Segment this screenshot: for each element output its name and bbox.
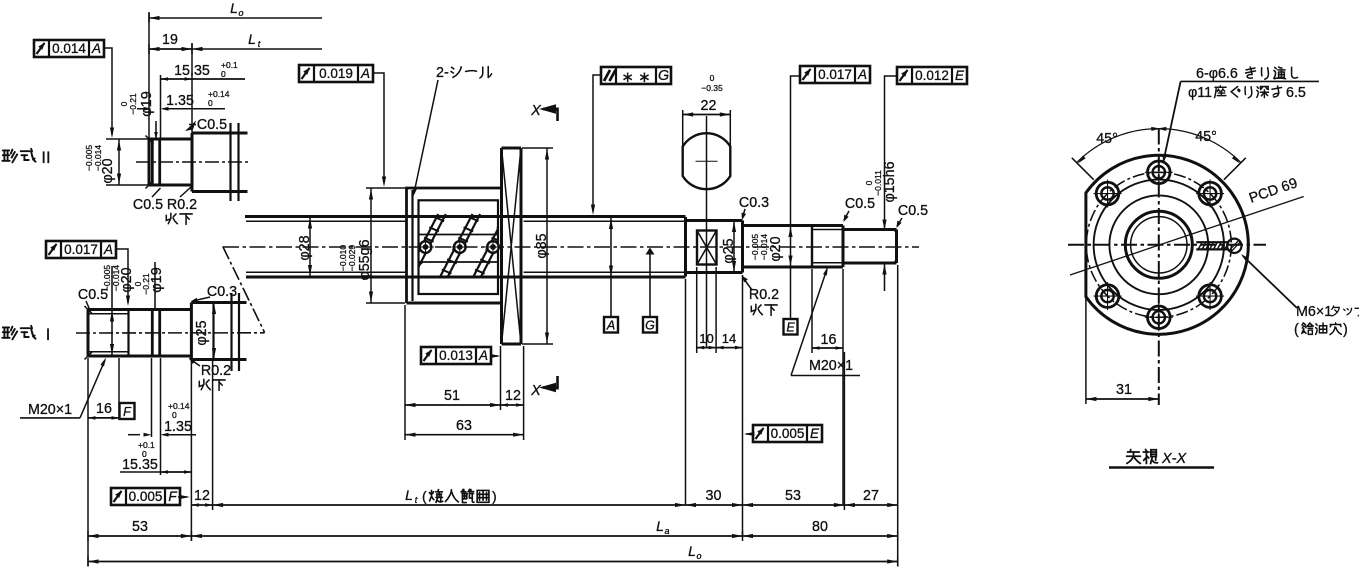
svg-text:φ19: φ19 (149, 267, 165, 293)
dimension Lt top (192, 48, 322, 50)
form II break double bars (229, 123, 231, 201)
end view horizontal centerline (1068, 244, 1266, 246)
svg-text:φ55g6: φ55g6 (357, 239, 373, 280)
svg-text:φ28: φ28 (297, 235, 313, 260)
thread M20 root lines (812, 229, 843, 231)
dimension 12 chain row1 (191, 504, 212, 506)
svg-text:53: 53 (132, 519, 148, 535)
form I relief groove lines (151, 310, 154, 357)
form II dimension 19 (148, 12, 150, 139)
projection line from flats section (706, 116, 708, 347)
svg-text:A: A (360, 66, 370, 81)
svg-text:φ25: φ25 (721, 238, 737, 263)
svg-text:0: 0 (172, 410, 177, 420)
flange cross diagonals (502, 148, 522, 344)
step face phi25 to phi20 (741, 221, 744, 273)
svg-text:0: 0 (142, 449, 147, 459)
svg-text:0.013: 0.013 (439, 348, 473, 363)
svg-text:A: A (857, 67, 867, 82)
dimension Lo top (149, 17, 322, 19)
svg-text:C0.5: C0.5 (845, 196, 875, 212)
form I centerline (76, 332, 265, 334)
svg-text:F: F (168, 489, 177, 504)
end chamfer slashes (894, 230, 897, 233)
six bolt holes with counterbore (1148, 161, 1171, 184)
form I phi20 dimension (111, 266, 113, 356)
leader 0.005F arrow to ext line (178, 496, 187, 498)
leader 0.012E to phi15 dimension line (885, 76, 898, 229)
dimension phi55g6 nut body (366, 187, 405, 189)
svg-text:o: o (238, 8, 243, 18)
svg-text:12: 12 (194, 488, 210, 504)
bore circle phi28 (1125, 211, 1192, 278)
dimension phi85 flange OD (522, 147, 553, 149)
svg-text:A: A (103, 242, 113, 257)
svg-text:): ) (492, 488, 497, 504)
flats section center ticks (696, 160, 718, 162)
svg-text:14: 14 (722, 331, 736, 346)
svg-text:−0.35: −0.35 (701, 83, 723, 93)
GD&T frame star star G (601, 67, 671, 84)
svg-text:L: L (688, 543, 696, 559)
datum G frame stem and triangle (649, 250, 651, 317)
svg-text:φ25: φ25 (194, 320, 210, 345)
end view flange outer circle with left flat (1086, 155, 1248, 334)
svg-text:φ20: φ20 (119, 267, 135, 292)
svg-text:10: 10 (699, 331, 713, 346)
svg-text:27: 27 (863, 488, 879, 504)
svg-text:φ85: φ85 (534, 233, 550, 258)
svg-text:16: 16 (96, 401, 112, 417)
svg-text:X: X (530, 103, 542, 119)
bolt circle PCD dash-dot (1086, 172, 1231, 317)
bolt note underline and leader (1181, 80, 1319, 82)
svg-text:0: 0 (208, 98, 213, 108)
GD&T frame 0.014 A (34, 40, 104, 57)
dimension Lt hardened range row1 (213, 504, 686, 506)
dimension Lo row3 (88, 561, 898, 563)
ball circuit diagonal band (405, 214, 438, 278)
form I shoulder face (190, 303, 193, 360)
dimension 14 (716, 347, 742, 349)
svg-text:L: L (248, 31, 256, 47)
title keishiki I (2, 326, 35, 340)
wrench flat section circle with flats width 22 (683, 133, 731, 189)
svg-text:0: 0 (710, 73, 715, 83)
svg-text:φ20: φ20 (100, 158, 116, 183)
svg-text:31: 31 (1116, 382, 1132, 398)
svg-text:(: ( (1294, 322, 1299, 338)
ball circuit diagonal band (473, 214, 506, 278)
oil hole M6 tap at right (1227, 239, 1241, 253)
45 degree arc right with arrows (1159, 129, 1241, 163)
datum F frame (120, 403, 135, 419)
form I dimension 16 (118, 358, 120, 420)
thread root circle (1131, 217, 1187, 273)
svg-text:C0.5: C0.5 (197, 117, 227, 133)
svg-text:C0.3: C0.3 (739, 195, 769, 211)
form I threaded journal outline (88, 308, 191, 311)
leader starstarG to screw OD (593, 75, 601, 211)
nut inner recess (419, 200, 499, 294)
screw shaft outer diameter top line (245, 215, 686, 218)
svg-text:16: 16 (821, 332, 837, 348)
form II dimension 15.35 (161, 78, 193, 80)
form II chamfer slashes at end (146, 136, 154, 144)
svg-text:C0.5: C0.5 (898, 203, 928, 219)
svg-text:A: A (478, 348, 488, 363)
svg-text:A: A (606, 319, 615, 333)
oil hole threaded slot hatched (1196, 241, 1228, 243)
svg-text:A: A (91, 41, 101, 56)
fillet label ikalabel (751, 304, 777, 315)
svg-text:63: 63 (456, 418, 472, 434)
screw thread root line bottom (246, 271, 407, 273)
svg-text:o: o (696, 551, 701, 561)
form I chamfer slashes (85, 306, 93, 314)
balls on centerline (420, 241, 432, 253)
svg-text:45°: 45° (1096, 131, 1118, 147)
view label yashi X-X (1127, 449, 1158, 463)
svg-text:L: L (405, 487, 413, 503)
svg-text:E: E (810, 426, 820, 441)
45 degree radial line left (1072, 158, 1094, 180)
leader 0.005E arrow to shoulder ext line (746, 433, 753, 435)
svg-text:51: 51 (444, 388, 460, 404)
dimension 27 row1 (844, 504, 897, 506)
svg-text:0.019: 0.019 (319, 66, 353, 81)
svg-text:C0.5: C0.5 (133, 197, 163, 213)
form I seat edge line (212, 303, 214, 360)
svg-text:φ15h6: φ15h6 (882, 161, 898, 202)
form I dimension 15.35 (161, 471, 192, 473)
dimension 51 nut body length (405, 404, 501, 406)
svg-text:): ) (1343, 322, 1348, 338)
GD&T frame 0.005 E (753, 425, 822, 442)
extension lines 10 14 (685, 279, 687, 505)
svg-text:1.35: 1.35 (166, 93, 194, 109)
form II phi20 dimension (106, 138, 149, 140)
nut flange (500, 148, 503, 344)
thread M20 boundary line (811, 226, 813, 268)
dimension phi25 of journal (733, 222, 735, 272)
centerline jog diagonal to main view (223, 247, 265, 333)
wrench flats box with cross (697, 231, 717, 265)
GD&T frame 0.013 A (421, 347, 491, 364)
svg-text:E: E (786, 321, 795, 335)
svg-text:∗ ∗: ∗ ∗ (621, 69, 650, 86)
datum E frame (784, 319, 798, 335)
screw shaft outer diameter bottom line (246, 276, 686, 279)
dimension 16 thread length (811, 269, 813, 353)
svg-text:45°: 45° (1195, 129, 1217, 145)
svg-text:L: L (230, 0, 238, 16)
leader 0.019A to nut OD extension (373, 73, 384, 181)
svg-text:53: 53 (785, 488, 801, 504)
form II journal phi20 outline (149, 138, 192, 141)
svg-text:2-: 2- (436, 65, 449, 81)
dimension La row2 (191, 535, 742, 537)
form I phi25 dimension on edge (212, 304, 216, 315)
svg-text:G: G (658, 68, 669, 84)
form II shaft section after shoulder (192, 132, 248, 135)
ball circuit diagonal band (506, 214, 539, 278)
shaft right end face (895, 230, 898, 264)
leader 0.017A to phi20 dimension line (791, 76, 801, 319)
svg-text:30: 30 (706, 488, 722, 504)
svg-text:80: 80 (812, 519, 828, 535)
dimension 10 flats length (697, 347, 716, 349)
PCD 69 leader line through center (1070, 197, 1304, 276)
nut left seal plate (411, 190, 413, 301)
svg-text:0.005: 0.005 (129, 489, 163, 504)
45 degree radial line right (1224, 158, 1246, 180)
form II dimension 1.35 (160, 75, 162, 139)
svg-text:−0.029: −0.029 (347, 245, 357, 272)
form II shoulder face (191, 133, 194, 192)
screw thread root line top (246, 220, 407, 222)
dimension 31 (1085, 298, 1087, 404)
step face M20 to phi15h6 (842, 226, 845, 268)
ball nut body outline (407, 188, 501, 303)
svg-text:M6×1: M6×1 (1296, 304, 1332, 320)
svg-text:R0.2: R0.2 (201, 363, 231, 379)
svg-text:M20×1: M20×1 (28, 402, 72, 418)
screw hidden OD under nut (dashed) (407, 216, 522, 218)
GD&T frame 0.017 A right (800, 66, 870, 83)
svg-text:X: X (530, 383, 542, 399)
svg-text:φ11: φ11 (1188, 85, 1212, 101)
svg-text:C0.5: C0.5 (78, 287, 108, 303)
centerline main shaft (223, 246, 919, 248)
svg-text:19: 19 (162, 32, 178, 48)
svg-text:1.35: 1.35 (164, 419, 192, 435)
svg-text:a: a (664, 526, 669, 536)
spigot circle (1094, 180, 1224, 310)
dimension 80 row2 (743, 535, 898, 537)
ball track lines inside nut (419, 234, 499, 236)
svg-text:12: 12 (505, 388, 521, 404)
datum A frame and stem (610, 218, 612, 318)
extension lines bottom chains (87, 358, 89, 566)
extension lines for 51 12 63 (404, 305, 406, 440)
svg-text:0.014: 0.014 (52, 41, 86, 56)
dimension 53 row1 (743, 504, 845, 506)
svg-text:0.017: 0.017 (64, 242, 98, 257)
svg-text:φ20: φ20 (768, 236, 784, 261)
recess circle (1109, 195, 1208, 294)
svg-text:0.005: 0.005 (771, 426, 805, 441)
form I shaft section after shoulder (191, 301, 246, 304)
form II centerline (136, 161, 248, 163)
end journal phi15h6 outline (843, 228, 897, 231)
leader 0.013A arrow to flange face (491, 355, 498, 357)
GD&T frame 0.005 F (111, 488, 180, 505)
dimension 30 row1 (686, 504, 743, 506)
form I thread end line (127, 310, 129, 357)
ball circuit diagonal band (440, 214, 473, 278)
form I dimension 1.35 (151, 358, 153, 437)
title keishiki II (2, 149, 35, 163)
journal phi20 bearing seat outline (743, 224, 813, 227)
svg-text:−0.21: −0.21 (128, 93, 138, 115)
dimension 12 flange width (501, 404, 524, 406)
GD&T frame 0.017 A left (46, 241, 116, 258)
svg-text:R0.2: R0.2 (749, 287, 779, 303)
svg-text:E: E (955, 68, 965, 83)
leader 0.017A to journal (116, 249, 128, 303)
45 degree arc left with arrows (1077, 129, 1159, 163)
svg-text:15.35: 15.35 (122, 457, 158, 473)
svg-text:R0.2: R0.2 (167, 197, 197, 213)
shoulder face at screw right end (684, 217, 687, 277)
dimension 53 row2 left (88, 535, 191, 537)
leader 0.014A down to phi20 extension (104, 48, 112, 135)
dimension 22 across flats (682, 110, 684, 146)
thread M20 outline (812, 224, 843, 227)
svg-text:0.012: 0.012 (915, 68, 949, 83)
form I thread root lines (88, 313, 129, 315)
ball circuit diagonal band (372, 214, 405, 278)
svg-text:(: ( (422, 488, 427, 504)
GD&T frame 0.012 E (897, 67, 967, 84)
svg-text:6-φ6.6: 6-φ6.6 (1196, 66, 1238, 82)
svg-text:C0.3: C0.3 (207, 284, 237, 300)
dimension phi28 screw OD (309, 218, 311, 276)
svg-text:II: II (41, 149, 50, 167)
dimension 63 nut total length (405, 434, 524, 436)
svg-text:φ19: φ19 (139, 91, 155, 117)
svg-text:22: 22 (701, 98, 717, 114)
svg-text:0.017: 0.017 (818, 67, 852, 82)
form II relief groove lines (151, 139, 154, 185)
phi15 lower outside arrow line (884, 264, 886, 291)
svg-text:L: L (656, 518, 664, 534)
svg-text:X-X: X-X (1161, 451, 1188, 467)
form II phi19 dimension line (155, 121, 157, 140)
journal phi25 outline (686, 219, 743, 222)
svg-text:6.5: 6.5 (1286, 85, 1306, 101)
svg-text:0: 0 (221, 69, 226, 79)
svg-text:G: G (645, 319, 655, 333)
form I break double bars (230, 293, 232, 371)
svg-text:I: I (46, 326, 51, 344)
GD&T frame 0.019 A (299, 65, 373, 82)
form I phi19 dimension line (154, 262, 156, 310)
end view vertical centerline (1158, 129, 1160, 406)
svg-text:M20×1: M20×1 (809, 358, 853, 374)
